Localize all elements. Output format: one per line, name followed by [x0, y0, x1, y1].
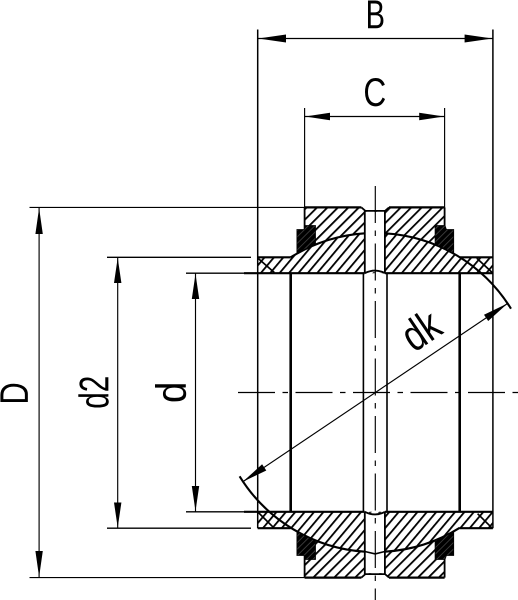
seal bottom-right [435, 532, 454, 560]
dimension D line [38, 207, 40, 577]
sphere-to-shoulder junction edge right (projected circle) [458, 274, 461, 511]
seal top-left [297, 226, 316, 254]
outer ring bottom right side face [444, 556, 446, 578]
outer ring bottom face lube notch [361, 574, 389, 578]
sphere arc top, right of lube hole, extends past dk arrowhead [385, 233, 511, 308]
dimension C right arrowhead [419, 113, 444, 120]
label B [368, 1, 383, 29]
dimension d2 top extension line [107, 256, 251, 258]
seal top-right [435, 226, 454, 254]
dimension C left arrowhead [305, 113, 330, 120]
inner ring bottom section (hatched) [258, 512, 493, 553]
dimension dk lower-left arrowhead [243, 464, 267, 482]
dimension d2 bottom extension line [107, 527, 251, 529]
bore lube groove arc top [365, 271, 385, 274]
dimension D bottom extension line [30, 577, 305, 579]
label C [365, 78, 385, 106]
label d2 [78, 377, 108, 407]
dimension dk upper-right arrowhead [484, 303, 508, 321]
dimension B left arrowhead [258, 35, 286, 43]
inner ring left side face [257, 30, 259, 529]
outer ring top face [305, 206, 445, 208]
dimension d bottom extension line [186, 511, 250, 513]
dimension d bottom arrowhead [192, 486, 199, 511]
label D [0, 384, 27, 402]
sphere arc bottom, right of lube hole [385, 528, 460, 552]
inner ring bottom shoulder line right [460, 527, 493, 529]
bore lube groove arc bottom [365, 512, 385, 515]
outer ring bottom section (hatched) [305, 536, 445, 578]
outer ring bottom left side face [304, 556, 306, 578]
chamfer edge top-right [477, 258, 493, 272]
sphere arc bottom, left of lube hole, extends past dk arrowhead [240, 476, 365, 551]
lube hole edge right, top [384, 211, 386, 273]
lube hole edge left, bottom [364, 513, 366, 575]
inner ring top section (hatched) [258, 233, 493, 273]
dimension d2 bottom arrowhead [114, 503, 121, 528]
seal bottom-left [297, 532, 316, 560]
bore lube groove edge left (projected) [362, 273, 364, 512]
chamfer edge top-left [258, 259, 274, 273]
dimension d top arrowhead [192, 274, 199, 299]
outer ring top face lube notch [361, 207, 389, 211]
outer ring bottom face [305, 576, 445, 578]
bore lube groove edge right (projected) [386, 273, 388, 512]
dimension dk line (diagonal) [243, 303, 508, 482]
inner ring top shoulder line left [258, 256, 291, 258]
bore line top [244, 272, 493, 274]
dimension C line [305, 116, 445, 118]
dimension B right arrowhead [465, 35, 493, 43]
lubrication hole slot bottom (white) [365, 513, 385, 573]
dimension d2 line [117, 257, 119, 528]
horizontal centerline (dash-dot) [238, 392, 518, 394]
dimension D top arrowhead [35, 208, 42, 234]
label dk [405, 313, 444, 350]
outer ring top left side face [304, 207, 306, 229]
dimension d2 top arrowhead [114, 258, 121, 283]
chamfer edge bottom-right [478, 514, 493, 529]
inner ring right side face [492, 30, 494, 529]
bore line bottom [244, 511, 493, 513]
dimension C right extension line [444, 108, 446, 207]
sphere arc top, left of lube hole [291, 233, 365, 257]
lube hole edge right, bottom [384, 513, 386, 575]
dimension d line [195, 273, 197, 512]
chamfer edge bottom-left [258, 512, 274, 527]
dimension D bottom arrowhead [35, 551, 42, 577]
lube hole edge left, top [364, 211, 366, 273]
inner ring bottom shoulder line left [258, 527, 291, 529]
dimension d top extension line [186, 272, 250, 274]
outer ring top right side face [444, 207, 446, 229]
outer ring top section (hatched) [305, 207, 445, 249]
lubrication hole slot top (white) [365, 212, 385, 272]
sphere-to-shoulder junction edge left (projected circle) [289, 274, 292, 511]
label d [155, 384, 186, 401]
inner ring top shoulder line right [460, 256, 493, 258]
dimension B line [258, 38, 493, 40]
dimension D top extension line [30, 206, 305, 208]
sphere arc V dip across lube hole bottom [365, 552, 385, 554]
vertical centerline (dash-dot) [374, 186, 376, 600]
dimension C left extension line [304, 108, 306, 207]
